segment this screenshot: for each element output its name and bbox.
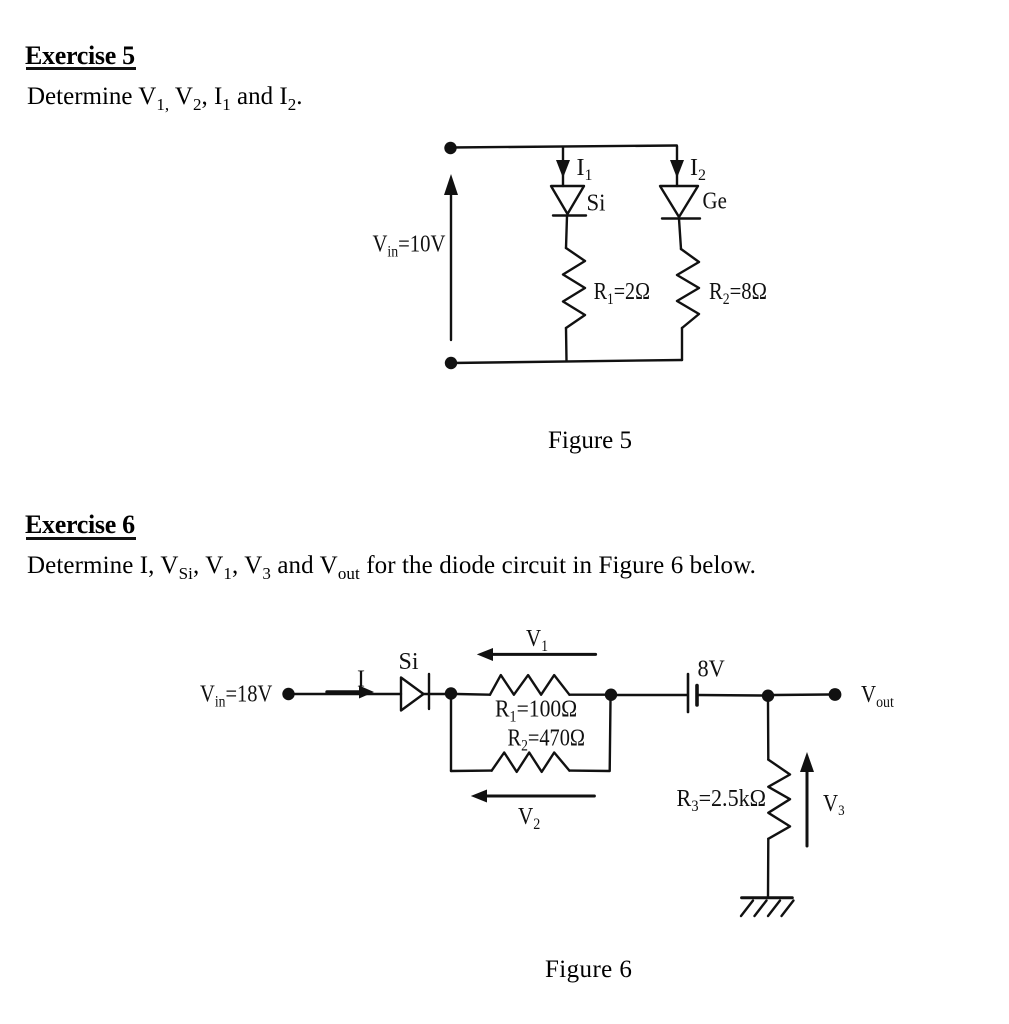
- underline Exercise 5: [26, 67, 136, 70]
- svg-text:R2=470Ω: R2=470Ω: [508, 724, 586, 755]
- node top-left fig5: [444, 142, 456, 154]
- node C fig6: [762, 690, 774, 702]
- wire node B to battery fig6: [617, 694, 687, 696]
- wire branch2 arrow stem fig5: [676, 146, 678, 186]
- node A fig6: [445, 687, 457, 699]
- voltage arrow V1 fig6: [477, 648, 596, 661]
- svg-text:V2: V2: [518, 803, 540, 833]
- current arrow I fig6: [327, 686, 374, 699]
- wire R1 to bottom fig5: [565, 328, 568, 361]
- heading Exercise 6: [25, 512, 135, 538]
- svg-text:I1: I1: [577, 155, 593, 184]
- underline Exercise 6: [26, 537, 136, 540]
- diode D2 Ge fig5: [660, 186, 700, 219]
- resistor R3 fig6: [768, 760, 790, 839]
- battery 8V fig6: [688, 674, 697, 712]
- wire diode2 to R2 fig5: [679, 219, 681, 249]
- current arrow I1 fig5: [556, 160, 570, 178]
- heading Exercise 5: [25, 43, 135, 69]
- caption Figure 5: [548, 428, 632, 453]
- svg-text:R1=100Ω: R1=100Ω: [495, 695, 577, 725]
- current arrow I2 fig5: [670, 160, 684, 178]
- diode D1 Si fig5: [551, 186, 586, 216]
- node bottom-left fig5: [445, 357, 457, 369]
- wire node to R1 fig6: [457, 693, 490, 696]
- svg-text:8V: 8V: [698, 656, 726, 683]
- wire diode to node fig6: [424, 693, 446, 695]
- wire R2 to bottom fig5: [681, 328, 683, 360]
- resistor R1 fig5: [563, 248, 585, 328]
- wire node C to R3 fig6: [767, 702, 770, 760]
- svg-text:R1=2Ω: R1=2Ω: [594, 277, 650, 308]
- output node fig6: [829, 688, 842, 701]
- svg-text:Vin=10V: Vin=10V: [373, 230, 446, 261]
- paragraph Determine V1 V2 I1 I2: [27, 84, 302, 109]
- wire battery to node C fig6: [697, 694, 762, 697]
- resistor R2 fig6: [492, 753, 570, 772]
- caption Figure 6: [545, 957, 632, 982]
- diode Si fig6: [401, 674, 429, 711]
- node B fig6: [605, 689, 617, 701]
- wire input to diode fig6: [295, 693, 402, 695]
- wire to R2 fig6: [451, 769, 492, 772]
- resistor R1 fig6: [490, 675, 569, 695]
- svg-text:Vin=18V: Vin=18V: [200, 680, 272, 711]
- svg-text:Ge: Ge: [703, 187, 727, 214]
- resistor R2 fig5: [677, 249, 699, 328]
- wire diode1 to R1 fig5: [566, 216, 567, 248]
- paragraph Determine I VSi V1 V3 Vout: [27, 553, 756, 578]
- input node fig6: [282, 688, 294, 700]
- svg-text:Vout: Vout: [861, 681, 895, 712]
- wire R2 to node B fig6: [569, 700, 610, 771]
- svg-text:Si: Si: [587, 190, 606, 217]
- voltage source arrow Vin fig5: [444, 174, 458, 340]
- svg-text:R2=8Ω: R2=8Ω: [709, 278, 767, 309]
- svg-text:I: I: [357, 667, 365, 693]
- wire node C to output fig6: [774, 693, 829, 696]
- wire node A down fig6: [450, 700, 452, 772]
- svg-text:Si: Si: [399, 649, 419, 675]
- wire R1 to node B fig6: [569, 694, 605, 696]
- svg-text:V3: V3: [823, 790, 845, 820]
- wire branch1 arrow stem fig5: [562, 147, 564, 186]
- voltage arrow V2 fig6: [471, 790, 595, 803]
- svg-text:V1: V1: [526, 625, 548, 656]
- svg-text:I2: I2: [690, 155, 706, 184]
- wire top fig5: [451, 146, 677, 148]
- wire R3 to ground fig6: [767, 839, 770, 898]
- ground fig6: [741, 898, 794, 916]
- svg-text:R3=2.5kΩ: R3=2.5kΩ: [677, 784, 767, 815]
- voltage arrow V3 fig6: [800, 752, 814, 846]
- wire bottom fig5: [451, 360, 682, 363]
